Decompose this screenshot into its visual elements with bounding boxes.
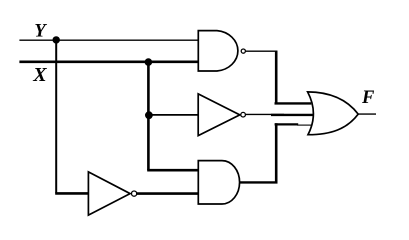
wire NAND output vertical	[275, 51, 278, 105]
wire Y branch vertical	[55, 40, 57, 193]
NAND gate U1	[198, 31, 238, 71]
inverter U3 (bottom left)	[88, 172, 130, 215]
wire OR gate top input	[275, 102, 312, 104]
wire Y input horizontal	[19, 39, 198, 41]
wire AND output horizontal	[240, 181, 278, 183]
OR gate U5	[308, 92, 359, 135]
svg-text:F: F	[361, 88, 375, 108]
wire OR gate output	[358, 113, 377, 115]
svg-text:X: X	[32, 64, 47, 86]
node Y-branch junction	[53, 36, 60, 43]
node middle-inverter tap junction	[145, 111, 153, 119]
inverter U3 output bubble	[132, 191, 137, 196]
inverter U2 (middle)	[198, 94, 240, 136]
wire NAND output horizontal	[246, 50, 278, 52]
wire to bottom inverter input	[55, 192, 88, 195]
wire OR gate bottom input	[275, 123, 299, 125]
AND gate U4	[198, 161, 239, 204]
NAND gate U1 output bubble	[241, 49, 245, 53]
svg-text:Y: Y	[34, 21, 47, 41]
node X-branch junction	[145, 58, 153, 66]
wire AND output vertical	[275, 123, 278, 182]
inverter U2 output bubble	[241, 112, 246, 117]
wire X input horizontal	[19, 60, 198, 63]
wire X branch vertical	[147, 62, 150, 170]
wire middle inverter input	[147, 114, 198, 116]
wire middle inverter output	[246, 113, 284, 115]
wire AND gate top input	[147, 169, 198, 172]
wire OR gate bottom input thin segment	[297, 124, 312, 126]
wire OR gate middle input	[271, 114, 315, 116]
wire bottom inverter output to AND input	[137, 192, 198, 195]
